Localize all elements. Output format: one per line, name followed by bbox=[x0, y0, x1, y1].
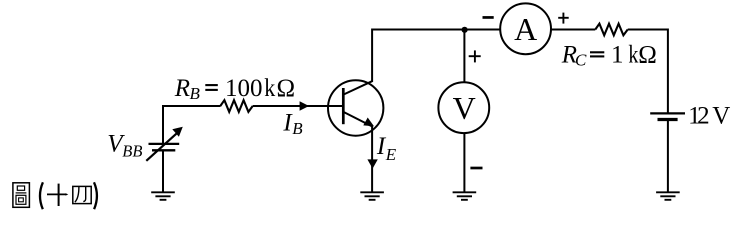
label IB bbox=[282, 110, 303, 139]
svg-text:2: 2 bbox=[697, 103, 710, 130]
ground (battery) bbox=[656, 192, 680, 200]
svg-text:B: B bbox=[190, 84, 201, 103]
polarity plus right of ammeter bbox=[558, 13, 569, 24]
source VBB variable battery bbox=[146, 127, 183, 161]
ground (voltmeter) bbox=[453, 192, 477, 200]
svg-text:A: A bbox=[514, 11, 537, 47]
resistor RC bbox=[595, 24, 627, 36]
svg-text:BB: BB bbox=[122, 141, 142, 160]
resistor RB bbox=[220, 100, 252, 112]
wire: VBB top corner to RB left bbox=[163, 106, 221, 145]
wire: junction to voltmeter bbox=[463, 30, 465, 83]
polarity minus left of ammeter bbox=[483, 16, 494, 19]
ground (VBB) bbox=[151, 192, 175, 200]
wire: RC to battery top bbox=[628, 30, 668, 114]
current arrow IE on emitter wire bbox=[367, 159, 377, 168]
wire: collector riser to top rail bbox=[372, 30, 500, 83]
ground (emitter) bbox=[360, 192, 384, 200]
caption: figure (fourteen) bbox=[13, 182, 97, 209]
label 12 V bbox=[688, 103, 730, 130]
svg-text:R: R bbox=[174, 75, 190, 102]
svg-text:k: k bbox=[628, 41, 638, 68]
label VBB bbox=[107, 130, 142, 160]
wire: VBB to ground bbox=[162, 150, 164, 192]
CJK char ten bbox=[47, 184, 68, 206]
junction node dot bbox=[462, 27, 468, 33]
svg-text:V: V bbox=[453, 90, 476, 126]
CJK char TU (figure) bbox=[13, 183, 30, 208]
voltmeter V bbox=[438, 82, 489, 133]
svg-text:Ω: Ω bbox=[277, 75, 296, 102]
svg-text:E: E bbox=[385, 145, 397, 164]
open paren bbox=[40, 182, 43, 209]
svg-text:Ω: Ω bbox=[638, 41, 657, 68]
transistor Q1 bbox=[328, 80, 383, 135]
close paren bbox=[94, 182, 97, 209]
polarity minus below voltmeter bbox=[470, 167, 482, 170]
label RB = 100 kOhm bbox=[174, 75, 295, 103]
svg-text:1: 1 bbox=[611, 41, 624, 68]
battery 12V bbox=[650, 113, 685, 119]
polarity plus above voltmeter bbox=[469, 50, 481, 62]
svg-text:100: 100 bbox=[225, 75, 263, 102]
svg-text:k: k bbox=[264, 75, 275, 102]
CJK char four bbox=[73, 186, 91, 203]
wire: voltmeter to ground bbox=[463, 133, 465, 192]
label IE bbox=[376, 133, 397, 164]
ammeter A bbox=[500, 3, 551, 54]
svg-text:C: C bbox=[575, 50, 587, 69]
wire: battery to ground bbox=[667, 120, 669, 193]
wire: ammeter to RC bbox=[551, 29, 595, 31]
label RC = 1 kOhm bbox=[561, 41, 657, 69]
svg-text:B: B bbox=[292, 119, 303, 138]
current arrow IB on base wire bbox=[300, 101, 309, 111]
svg-text:V: V bbox=[712, 103, 730, 130]
wire: RB to transistor base bbox=[253, 105, 343, 107]
wire: emitter to ground bbox=[371, 126, 373, 192]
